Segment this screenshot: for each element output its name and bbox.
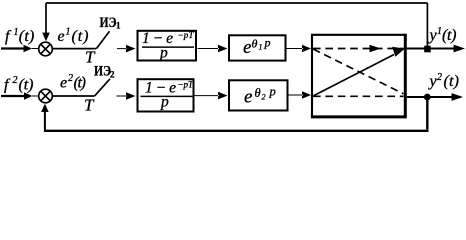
- svg-text:2: 2: [110, 70, 115, 80]
- solid diagonal channel 2-1: [313, 55, 394, 97]
- svg-text:2: 2: [437, 72, 442, 83]
- wire: feedback 2 dropper: [426, 97, 428, 130]
- svg-text:p: p: [264, 36, 271, 50]
- svg-text:1 − e: 1 − e: [142, 30, 173, 47]
- svg-text:e: e: [60, 75, 67, 92]
- sampler switch IE2 blade: [94, 79, 110, 97]
- matrix block (cross-coupling): [312, 35, 405, 117]
- svg-text:p: p: [160, 94, 169, 111]
- wire: feedback 2 bottom run: [45, 130, 429, 132]
- svg-text:1: 1: [66, 27, 71, 38]
- block delay 2: e^theta2 p: [229, 80, 288, 110]
- svg-text:y: y: [428, 73, 438, 90]
- svg-text:(t): (t): [19, 28, 35, 45]
- svg-text:2: 2: [13, 75, 18, 86]
- svg-text:ИЭ: ИЭ: [94, 64, 111, 80]
- sampler switch IE1 blade: [96, 31, 109, 49]
- svg-text:y: y: [428, 27, 438, 44]
- svg-text:(t): (t): [442, 27, 457, 44]
- svg-text:1: 1: [116, 21, 121, 31]
- svg-text:2: 2: [68, 73, 73, 84]
- dashed path channel 1-1: [313, 48, 404, 50]
- svg-text:T: T: [84, 96, 95, 115]
- arrowhead mid channel 1-1: [370, 45, 382, 52]
- svg-text:e: e: [58, 28, 65, 45]
- svg-text:−pT: −pT: [178, 80, 194, 90]
- wire: sampler2 to block3 with arrowhead: [117, 92, 136, 100]
- wire: block3 to block4 with arrowhead: [195, 92, 228, 100]
- node: y2 junction: [424, 94, 431, 101]
- arrowhead y1 output: [454, 45, 466, 53]
- svg-text:θ: θ: [255, 86, 261, 100]
- wire: summer2 to sampler 2: [52, 95, 94, 97]
- wire: block4 to matrix block with arrowhead: [289, 91, 312, 99]
- summing junction 1: [39, 42, 53, 56]
- summing junction 2: [39, 89, 53, 103]
- svg-text:θ: θ: [252, 36, 258, 50]
- arrowhead of diagonal channel 2-1: [392, 47, 405, 57]
- svg-text:e: e: [244, 86, 252, 107]
- wire: feedback 1 drop to summer1: [45, 3, 47, 33]
- wire: feedback 1 top run: [46, 2, 427, 4]
- arrowhead: feedback 1 into summer 1: [42, 33, 50, 42]
- wire: summer1 to sampler 1: [52, 48, 96, 50]
- arrowhead: f2 into summer 2: [24, 92, 38, 100]
- wire: block2 to matrix block with arrowhead: [287, 45, 312, 53]
- block ZOH 1: (1-e^-pT)/p: [138, 31, 197, 61]
- svg-text:(t): (t): [444, 73, 460, 90]
- block1 fraction bar: [142, 46, 194, 48]
- wire: feedback 1 riser: [426, 3, 428, 49]
- block3 fraction bar: [141, 96, 194, 98]
- wire: input f1: [1, 47, 25, 49]
- arrowhead y2 output: [452, 93, 464, 101]
- block delay 1: e^theta1 p: [229, 35, 286, 60]
- svg-text:ИЭ: ИЭ: [100, 15, 117, 31]
- svg-text:p: p: [269, 85, 276, 99]
- svg-text:(t): (t): [19, 77, 34, 94]
- wire: feedback 2 riser to summer2: [44, 111, 46, 132]
- svg-text:p: p: [159, 45, 168, 62]
- dashed path channel 2-2: [313, 95, 404, 97]
- wire: y1 output: [407, 48, 454, 50]
- block ZOH 2: (1-e^-pT)/p: [138, 79, 194, 111]
- svg-text:(t): (t): [74, 75, 87, 92]
- svg-text:(t): (t): [72, 28, 89, 45]
- svg-text:1: 1: [259, 43, 263, 52]
- wire: y2 output: [407, 96, 452, 98]
- wire: block1 to block2 with arrowhead: [198, 45, 228, 53]
- svg-text:2: 2: [262, 93, 266, 102]
- dashed diagonal channel 1-2: [313, 49, 404, 94]
- svg-text:1: 1: [14, 27, 19, 38]
- arrowhead: f1 into summer 1: [24, 45, 39, 53]
- svg-text:−pT: −pT: [178, 30, 195, 40]
- arrowhead: feedback 2 into summer 2: [41, 104, 49, 112]
- wire: input f2: [1, 95, 25, 97]
- svg-text:e: e: [243, 37, 251, 58]
- wire: sampler1 to block1 with arrowhead: [117, 45, 136, 53]
- node: y1 junction: [424, 46, 431, 53]
